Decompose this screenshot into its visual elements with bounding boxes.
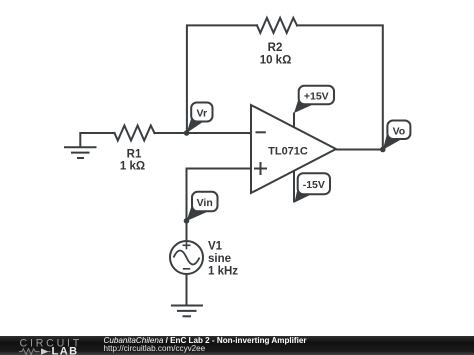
svg-text:R2: R2	[268, 42, 283, 54]
node flag Vin	[187, 192, 218, 221]
svg-text:-15V: -15V	[303, 179, 325, 191]
svg-text:1 kΩ: 1 kΩ	[120, 161, 145, 173]
resistor R2	[257, 18, 297, 33]
svg-text:LAB: LAB	[52, 346, 79, 355]
power flag +15V	[294, 86, 334, 113]
op-amp U1 TL071C	[251, 105, 336, 203]
svg-text:http://circuitlab.com/ccyv2ee: http://circuitlab.com/ccyv2ee	[104, 344, 206, 353]
svg-text:TL071C: TL071C	[268, 146, 308, 158]
svg-text:sine: sine	[208, 253, 231, 265]
resistor R2 label	[260, 42, 292, 67]
CircuitLab logo	[19, 338, 82, 355]
wire output	[336, 149, 383, 151]
junction node Vin	[184, 218, 190, 224]
node flag Vo	[383, 121, 411, 150]
voltage source V1 labels	[208, 241, 238, 278]
resistor R1	[115, 126, 155, 141]
ground GND2 (bottom)	[172, 306, 202, 317]
svg-text:R1: R1	[127, 149, 142, 161]
wire V1 to ground	[186, 274, 188, 305]
wire R1 to inverting input	[155, 132, 252, 134]
resistor R1 label	[120, 149, 145, 173]
footer bar	[0, 336, 474, 355]
svg-text:1 kHz: 1 kHz	[208, 266, 238, 278]
ground GND1 (left)	[65, 147, 96, 158]
svg-text:V1: V1	[208, 241, 223, 253]
svg-text:Vin: Vin	[197, 197, 213, 209]
wire feedback right vertical	[297, 25, 383, 149]
svg-text:10 kΩ: 10 kΩ	[260, 55, 292, 67]
wire feedback left vertical	[187, 25, 257, 133]
wire ground to R1	[80, 133, 114, 147]
node flag Vr	[187, 103, 213, 134]
svg-text:Vr: Vr	[197, 107, 208, 119]
voltage source V1	[170, 241, 203, 274]
svg-text:+15V: +15V	[304, 90, 329, 102]
junction node Vo	[380, 147, 386, 153]
junction node Vr	[184, 130, 190, 136]
svg-text:Vo: Vo	[393, 125, 406, 137]
power flag -15V	[295, 173, 331, 202]
wire non-inverting input to Vin node	[187, 169, 252, 242]
